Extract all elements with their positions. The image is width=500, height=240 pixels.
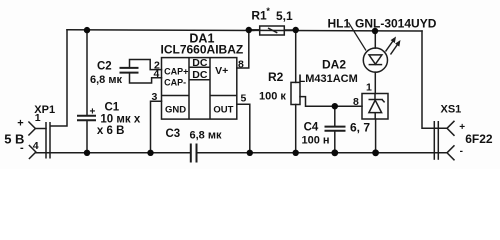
wire vertical B below C1 [86, 121, 88, 153]
wire R2 tap to DA2 ref pin 8 [300, 97, 362, 107]
svg-text:C3: C3 [166, 128, 181, 140]
svg-text:8: 8 [238, 59, 244, 71]
capacitor C1 [77, 116, 96, 121]
svg-text:DA2: DA2 [322, 57, 346, 71]
wire XP1 pin1 stub [35, 128, 46, 130]
svg-text:*: * [266, 6, 270, 16]
svg-text:C2: C2 [97, 61, 112, 73]
capacitor C4 [325, 127, 346, 131]
svg-text:5: 5 [241, 92, 247, 104]
svg-text:8: 8 [353, 96, 359, 108]
svg-text:C1: C1 [105, 102, 120, 114]
svg-text:6, 7: 6, 7 [350, 121, 370, 135]
svg-text:+: + [90, 107, 96, 118]
svg-text:х 6 В: х 6 В [97, 125, 125, 137]
wire top rail [67, 30, 422, 31]
connector XS1 pin + chevron [447, 121, 455, 136]
svg-text:6,8 мк: 6,8 мк [190, 130, 222, 142]
wire bottom rail left segment [36, 152, 190, 154]
svg-text:1: 1 [366, 81, 372, 93]
LED HL1 [349, 23, 401, 73]
svg-text:R2: R2 [268, 70, 284, 84]
wire pin 8 to top rail [237, 30, 249, 68]
transistor Q1 : DA2 TL431 box [362, 94, 388, 120]
HL1 leader line [349, 23, 367, 51]
svg-text:6F22: 6F22 [465, 132, 493, 146]
connector XS1 body bars [433, 121, 435, 160]
svg-text:-: - [460, 146, 463, 157]
wire bottom rail right segment [197, 152, 447, 154]
wire R2 bottom lead to rail [295, 105, 297, 153]
connector XP1 body bars [45, 122, 47, 159]
svg-text:OUT: OUT [213, 105, 233, 116]
connector XS1 pin - chevron [447, 145, 455, 160]
svg-text:DC: DC [192, 69, 208, 81]
wire R2 top lead [295, 30, 297, 82]
svg-text:1: 1 [35, 112, 41, 124]
connector XP1 pin 4 chevron [29, 145, 36, 159]
wire C4 bottom lead [334, 131, 336, 153]
capacitor C3 [191, 144, 197, 163]
svg-text:6,8 мк: 6,8 мк [90, 74, 122, 86]
svg-text:3: 3 [152, 91, 158, 103]
svg-text:100 к: 100 к [259, 91, 286, 103]
wire pin 5 to bottom rail [237, 104, 250, 153]
svg-text:LM431ACM: LM431ACM [299, 73, 358, 85]
resistor R2 [291, 82, 300, 104]
wire pin 3 to ground rail [151, 101, 162, 153]
op-amp U1 : IC DA1 box [162, 58, 237, 120]
svg-text:+: + [459, 122, 465, 133]
svg-text:R1: R1 [251, 8, 267, 22]
capacitor C2 [120, 68, 139, 73]
svg-text:HL1: HL1 [328, 16, 351, 30]
wire LED branch from top rail [374, 31, 376, 48]
svg-text:CAP+: CAP+ [164, 67, 188, 77]
svg-text:ICL7660AIBAZ: ICL7660AIBAZ [161, 43, 244, 57]
wire C2 bottom route to pin 4 [130, 73, 162, 83]
LED arrow 1 [386, 40, 395, 52]
svg-text:4: 4 [154, 68, 160, 80]
svg-text:XS1: XS1 [441, 104, 462, 116]
wire right vertical to XS1 [422, 31, 447, 128]
svg-text:-: - [20, 142, 24, 154]
resistor R1 [260, 26, 285, 35]
svg-text:GNL-3014UYD: GNL-3014UYD [355, 16, 437, 30]
svg-text:+: + [17, 118, 23, 130]
node junction vertical B from top rail to C1 [86, 29, 88, 115]
wire left vertical from top rail to XP1 pin 1 [51, 30, 67, 126]
svg-text:DC: DC [192, 57, 208, 69]
wire R1 left lead [249, 29, 260, 31]
svg-text:5,1: 5,1 [276, 9, 293, 23]
svg-text:4: 4 [33, 140, 39, 152]
wire C2 top route to pin 2 [130, 60, 162, 70]
svg-text:V+: V+ [215, 65, 228, 77]
svg-text:10 мк х: 10 мк х [100, 114, 140, 126]
wire DA2 pins 6 7 to bottom rail [375, 119, 377, 153]
LED arrow 2 [391, 43, 399, 55]
wire LED cathode to DA2 pin 1 [374, 72, 376, 93]
node dots [84, 27, 379, 156]
svg-text:CAP-: CAP- [164, 78, 186, 88]
svg-text:100 н: 100 н [302, 134, 330, 146]
connector XP1 pin 1 chevron [28, 122, 35, 136]
wire C4 top lead [334, 106, 336, 126]
svg-text:C4: C4 [304, 122, 319, 134]
svg-text:GND: GND [165, 105, 186, 116]
wire R1 right lead [284, 29, 295, 31]
